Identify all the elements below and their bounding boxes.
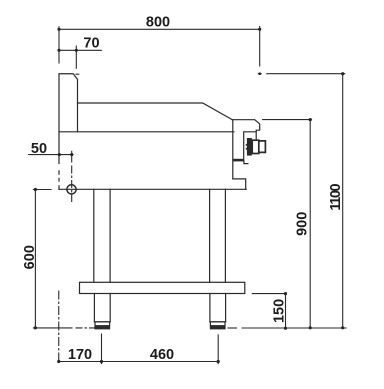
svg-text:70: 70	[83, 36, 99, 52]
dimension 1100 line	[342, 74, 344, 328]
svg-text:170: 170	[68, 347, 92, 363]
right top ledge and lip	[232, 120, 259, 139]
body top line	[59, 131, 234, 133]
foot-bottom extension line right solid part	[242, 327, 346, 329]
left edge hidden dashes	[58, 171, 60, 181]
dimension 150 line	[285, 294, 287, 329]
svg-text:800: 800	[146, 15, 170, 31]
knob nubs	[246, 144, 248, 146]
dimension 900 top extension	[263, 119, 312, 121]
left edge bottom corner	[58, 186, 60, 190]
knob face	[259, 141, 265, 153]
svg-text:460: 460	[150, 347, 174, 363]
dimension 150 top extension	[252, 293, 286, 295]
dimension terminator dots	[34, 28, 345, 363]
svg-text:150: 150	[271, 299, 287, 323]
dimension 600 line	[34, 190, 36, 328]
dimension 50 line	[29, 154, 73, 156]
knob bracket	[244, 132, 257, 161]
tick right leg centerline	[217, 335, 219, 364]
body bottom line	[59, 188, 246, 190]
foot-bottom extension line left solid part	[33, 327, 72, 329]
foot-bottom extension line left dash-dot part	[76, 327, 94, 329]
dimension 800 line	[59, 28, 260, 30]
svg-text:900: 900	[294, 212, 310, 236]
left leg	[93, 189, 95, 282]
svg-text:600: 600	[22, 245, 38, 269]
backsplash outline	[59, 74, 78, 164]
control knob	[233, 138, 266, 161]
griddle surface	[78, 103, 233, 120]
svg-text:50: 50	[31, 141, 47, 157]
right leg	[209, 189, 211, 282]
dimension texts	[22, 15, 344, 363]
dimension 70 right extension	[75, 46, 77, 68]
dimension 800 right extension	[259, 27, 261, 67]
svg-text:1100: 1100	[328, 183, 344, 210]
right foot	[210, 294, 226, 322]
valve hook	[244, 161, 248, 164]
dimension 1100 top extension	[267, 73, 345, 75]
dimension 800 left extension	[58, 27, 60, 63]
bottom shelf bar	[80, 282, 245, 293]
knob bezel dark	[247, 138, 252, 156]
foot cap dark fills	[95, 325, 226, 329]
body right edge	[232, 120, 234, 179]
dimension 1100 extension start dash at backsplash corner	[76, 73, 79, 75]
tick left leg centerline	[101, 334, 103, 364]
knob body	[252, 140, 259, 153]
left foot	[94, 294, 110, 322]
manifold thick bar	[233, 159, 244, 162]
left dash-dot extension down to bottom dimension	[58, 291, 60, 362]
bottom right step	[233, 179, 246, 189]
bottom dimension line 170/460	[59, 361, 219, 363]
dimension 600 top extension	[33, 189, 51, 191]
gas inlet circle	[67, 185, 76, 194]
dimension 800 right dash at backsplash level	[258, 73, 261, 75]
dimension 900 line	[309, 120, 311, 328]
dimension 50 right extension tick	[71, 151, 73, 162]
dimension 70 line	[59, 49, 101, 51]
gas inlet centerline dash-dot	[71, 166, 73, 202]
foot-bottom extension line right dash part	[228, 327, 237, 329]
